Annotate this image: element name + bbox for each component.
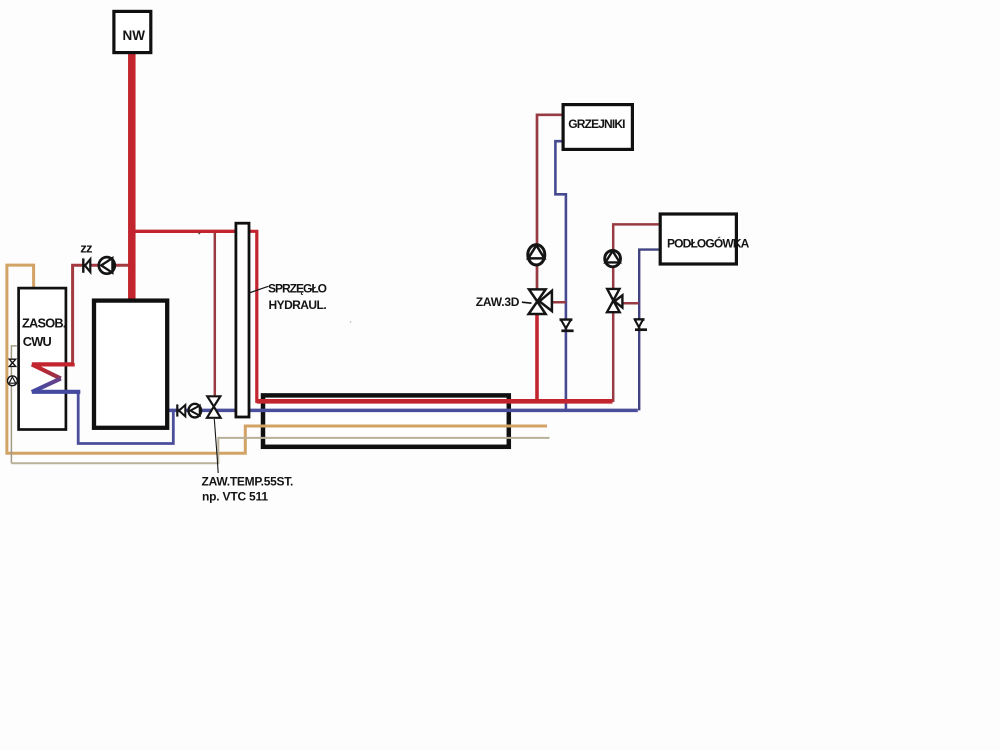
pump P3 (GRZEJNIKI) [528,245,545,265]
tank coil red top bar [32,363,73,364]
svg-text:NW: NW [123,28,146,43]
svg-text:ZAW.TEMP.55ST.: ZAW.TEMP.55ST. [202,475,294,489]
wire: dark red pump line to tank coil [73,265,132,363]
drain valve DV2 on blue [634,320,647,330]
wire: thin recirculation line vertical from tank [11,346,16,463]
faint speck near red tee [198,232,200,234]
wire: thick red main supply horizontal [257,399,613,404]
wire: blue boiler-to-tank return [78,391,173,444]
wire: blue PODLOGOWKA return [639,250,658,411]
wire: tan cold-water line left loop [7,265,547,453]
tank coil red-to-dark diagonal [32,364,61,378]
wire: dark red stub valve1 to blue [545,301,566,304]
svg-text:HYDRAUL.: HYDRAUL. [269,298,327,312]
pump P1 (tank loading pump) [99,257,115,274]
wire: dark red PODLOGOWKA below valve [612,312,615,403]
svg-text:ZASOB.: ZASOB. [22,316,66,331]
check valve on blue line [177,404,185,416]
svg-text:np. VTC 511: np. VTC 511 [202,489,268,503]
svg-text:GRZEJNIKI: GRZEJNIKI [568,117,625,131]
drain valve DV1 on blue [560,320,574,331]
svg-text:PODŁOGÓWKA: PODŁOGÓWKA [667,236,750,251]
svg-text:zz: zz [80,240,93,255]
wire: dark red stub valve2 to blue [622,302,639,305]
svg-text:CWU: CWU [23,334,52,349]
tank coil blue part [32,392,78,394]
pointer ZAW.3D dash [522,302,532,303]
wire: red from separator right down [250,231,613,401]
hydraulic separator SPRZEGLO [236,223,249,417]
wire: thick red NW drop [128,53,136,302]
wire: dark red middle drop to thermostatic valve [214,231,217,397]
tank ZASOB CWU [19,288,66,429]
pump P4 (PODLOGOWKA) [605,250,621,266]
GRZEJNIKI box [563,105,632,150]
wire: dark red PODLOGOWKA supply [613,224,658,289]
wire: blue GRZEJNIKI return [555,141,566,410]
wire: dark red GRZEJNIKI supply [537,115,562,290]
check valve ZZ [83,258,90,272]
tiny pump on khaki line [7,376,17,386]
3-way valve ZAW.3D (V1) [529,289,552,314]
wire: thin khaki recirculation line bottom run [11,438,549,463]
wire: blue main return horizontal [167,409,638,413]
svg-text:SPRZĘGŁO: SPRZĘGŁO [268,282,327,296]
tiny valve on khaki line [9,359,15,366]
NW box [114,11,151,52]
wire: red horizontal to separator [132,230,237,233]
boiler box [94,301,167,428]
3-way valve V2 [607,289,622,312]
pump P2 (small, on blue line) [189,404,202,418]
pointer SPRZEGLO [249,286,269,293]
wire: bright red below 3-way valve 1 [535,313,539,401]
pointer ZAW.TEMP [214,419,218,473]
tank coil transition diagonal [32,379,61,393]
thermostatic valve ZAW.TEMP [207,396,221,418]
svg-text:ZAW.3D: ZAW.3D [476,295,520,309]
buffer tank (bottom black rectangle) [263,395,509,446]
PODLOGOWKA box [660,214,736,264]
faint speck artifact [350,321,352,323]
